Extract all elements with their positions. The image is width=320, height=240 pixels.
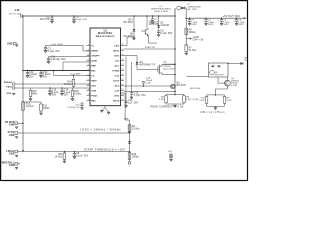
svg-text:10.0kΩ: 10.0kΩ <box>26 105 34 108</box>
svg-text:GND: GND <box>7 44 13 46</box>
svg-text:FB2: FB2 <box>91 100 96 102</box>
svg-text:26: 26 <box>122 54 124 56</box>
svg-text:100kΩ: 100kΩ <box>132 155 139 158</box>
svg-text:"ON": "ON" <box>244 60 249 62</box>
svg-text:5: 5 <box>88 64 89 66</box>
svg-text:PWRGDALL: PWRGDALL <box>0 162 15 165</box>
svg-text:CS1: CS1 <box>115 75 120 77</box>
svg-text:0.1µF, 50V: 0.1µF, 50V <box>160 33 172 35</box>
svg-text:0.1µF, 25V: 0.1µF, 25V <box>48 51 61 53</box>
svg-text:0.1µF, 25V: 0.1µF, 25V <box>76 155 88 157</box>
svg-text:GND: GND <box>9 153 15 155</box>
svg-text:50V: 50V <box>43 77 48 79</box>
svg-text:PGND: PGND <box>112 70 119 72</box>
svg-text:4: 4 <box>88 59 89 61</box>
svg-text:11: 11 <box>88 94 90 96</box>
svg-text:91.5kΩ: 91.5kΩ <box>189 49 197 52</box>
svg-text:TON: TON <box>91 90 96 92</box>
svg-text:18: 18 <box>122 94 124 96</box>
svg-text:19: 19 <box>122 89 124 91</box>
svg-text:200V: 200V <box>238 24 244 26</box>
svg-text:LX2: LX2 <box>115 90 120 92</box>
svg-text:PGD1: PGD1 <box>91 95 98 97</box>
svg-text:BST2: BST2 <box>113 100 120 102</box>
svg-text:NO-POP: NO-POP <box>215 74 224 76</box>
svg-text:24: 24 <box>122 64 124 66</box>
svg-text:NO-POP: NO-POP <box>149 24 159 26</box>
svg-text:CC: CC <box>91 75 95 77</box>
svg-text:25: 25 <box>122 59 124 61</box>
svg-text:28: 28 <box>122 44 124 46</box>
svg-text:GND: GND <box>7 93 12 95</box>
svg-text:50V: 50V <box>29 77 34 79</box>
svg-text:OUT1: OUT1 <box>113 80 120 82</box>
svg-text:LED (23Ω): LED (23Ω) <box>190 87 201 90</box>
svg-text:25V: 25V <box>52 94 57 96</box>
svg-text:MAX1533AEUP: MAX1533AEUP <box>96 35 115 38</box>
svg-text:1: 1 <box>88 44 89 46</box>
svg-text:1µF, 16V: 1µF, 16V <box>128 103 138 105</box>
svg-text:100kΩ: 100kΩ <box>43 107 50 110</box>
svg-text:5.6Ω: 5.6Ω <box>199 99 204 102</box>
svg-text:Qg = 3.8nC: Qg = 3.8nC <box>164 68 177 70</box>
svg-text:21: 21 <box>122 79 124 81</box>
svg-text:200V: 200V <box>208 24 214 26</box>
svg-text:14.3kΩ: 14.3kΩ <box>55 155 63 158</box>
svg-text:R1A 2.2Ω: R1A 2.2Ω <box>145 46 155 49</box>
svg-text:10.0kΩ: 10.0kΩ <box>132 127 140 130</box>
svg-text:8: 8 <box>88 79 89 81</box>
svg-text:U1: U1 <box>104 29 108 32</box>
svg-text:f OSC = 200kHz / 300kHz: f OSC = 200kHz / 300kHz <box>80 128 121 132</box>
svg-text:200V: 200V <box>191 24 197 26</box>
svg-text:2: 2 <box>88 49 89 51</box>
svg-text:t ON = 1.1 / 1.75 Ω·s: t ON = 1.1 / 1.75 Ω·s <box>200 111 225 114</box>
svg-text:DL2: DL2 <box>115 85 120 87</box>
svg-text:LDO: LDO <box>114 45 119 47</box>
svg-text:REF: REF <box>124 119 129 121</box>
svg-text:1µF: 1µF <box>154 22 159 24</box>
svg-text:25V: 25V <box>64 94 69 96</box>
svg-text:GND: GND <box>9 135 15 137</box>
svg-text:7: 7 <box>88 74 89 76</box>
svg-text:6A, 125V: 6A, 125V <box>187 8 197 11</box>
svg-text:4.7µF, 25V: 4.7µF, 25V <box>134 95 146 97</box>
svg-text:SHDN: SHDN <box>91 50 98 52</box>
svg-text:10µH, 3.9mΩ: 10µH, 3.9mΩ <box>154 10 169 13</box>
svg-text:10µF, 50V: 10µF, 50V <box>76 19 87 21</box>
svg-text:REF: REF <box>91 65 96 67</box>
svg-text:20: 20 <box>122 84 124 86</box>
svg-text:FB1: FB1 <box>91 70 96 72</box>
svg-text:GND: GND <box>9 165 15 167</box>
svg-text:PAV2: PAV2 <box>6 86 12 89</box>
svg-text:PEAK CURRENT = 6.5A: PEAK CURRENT = 6.5A <box>150 105 183 108</box>
svg-text:12: 12 <box>88 99 90 101</box>
svg-text:DL1: DL1 <box>115 65 120 67</box>
svg-text:ILIM1: ILIM1 <box>91 60 98 62</box>
svg-text:LX1: LX1 <box>115 60 120 62</box>
svg-text:5.6Ω: 5.6Ω <box>226 99 231 102</box>
svg-text:6MΩ: 6MΩ <box>32 92 37 95</box>
svg-text:22: 22 <box>122 74 124 76</box>
svg-text:V IN: V IN <box>15 9 20 12</box>
svg-text:0.28Ω: 0.28Ω <box>231 84 238 87</box>
svg-text:23: 23 <box>122 69 124 71</box>
svg-text:0.4Ω: 0.4Ω <box>146 81 151 84</box>
svg-text:NO-POP: NO-POP <box>123 22 133 24</box>
svg-text:200V: 200V <box>223 24 229 26</box>
svg-text:CHP + 5k: CHP + 5k <box>193 40 204 42</box>
svg-text:0.047µF, 50V: 0.047µF, 50V <box>51 59 66 61</box>
svg-text:START THRESHOLD = +20V: START THRESHOLD = +20V <box>84 147 126 151</box>
svg-text:27: 27 <box>122 49 124 51</box>
svg-text:LXBAL: LXBAL <box>6 150 15 153</box>
svg-text:SKIP: SKIP <box>91 80 97 82</box>
svg-text:BST1: BST1 <box>113 50 120 52</box>
svg-text:3: 3 <box>88 54 89 56</box>
svg-text:REFIN2: REFIN2 <box>4 82 13 84</box>
svg-text:0.8Ω, 0.5W: 0.8Ω, 0.5W <box>186 98 199 101</box>
svg-text:NO-POP: NO-POP <box>176 85 186 87</box>
svg-text:(7V TO 24V): (7V TO 24V) <box>9 13 22 15</box>
svg-text:NO-POP: NO-POP <box>40 19 50 21</box>
svg-text:10: 10 <box>88 89 90 91</box>
svg-text:OSC: OSC <box>91 85 96 87</box>
svg-text:BAT54WS-7-F: BAT54WS-7-F <box>140 64 156 67</box>
svg-text:DH2: DH2 <box>115 95 120 97</box>
svg-text:17: 17 <box>122 99 124 101</box>
svg-text:5V 1.8MV: 5V 1.8MV <box>70 74 81 76</box>
svg-text:(+5V CHG): (+5V CHG) <box>51 44 63 46</box>
svg-text:0.047µF, 6V: 0.047µF, 6V <box>67 107 80 109</box>
svg-text:500kΩ: 500kΩ <box>189 31 196 34</box>
svg-text:GND: GND <box>9 125 15 127</box>
svg-text:DH1: DH1 <box>115 55 120 57</box>
svg-text:0.8Ω: 0.8Ω <box>159 98 164 101</box>
svg-text:ONOFF: ONOFF <box>91 55 100 57</box>
svg-text:MAX1533A: MAX1533A <box>98 32 112 35</box>
svg-text:10.0kΩ: 10.0kΩ <box>64 83 72 86</box>
svg-text:+5V OUT (5A): +5V OUT (5A) <box>223 15 240 18</box>
svg-text:100kΩ: 100kΩ <box>74 92 81 95</box>
svg-text:1N4148: 1N4148 <box>160 25 169 27</box>
